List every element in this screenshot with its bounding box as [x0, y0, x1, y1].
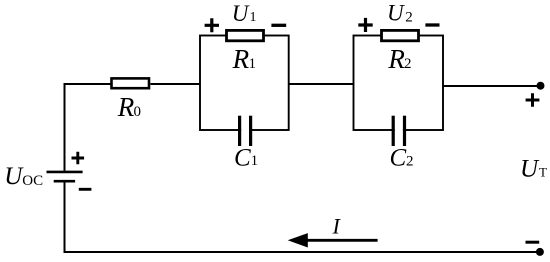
node: positive output terminal dot [537, 82, 545, 90]
node: RC1 parallel loop box [200, 36, 289, 131]
wire: R0 to RC1 network [151, 83, 201, 85]
svg-text:1: 1 [249, 56, 257, 72]
node: negative output terminal dot [536, 248, 544, 256]
battery cell UOC negative plate [54, 180, 75, 183]
svg-text:OC: OC [22, 173, 43, 189]
svg-text:U: U [232, 1, 250, 26]
svg-text:1: 1 [251, 153, 259, 169]
svg-text:R: R [387, 44, 405, 74]
node: RC2 parallel loop box [354, 36, 444, 131]
plus sign of U2 [358, 18, 372, 32]
current arrow I [288, 233, 378, 247]
plus sign of output [526, 93, 540, 107]
wire: left vertical from top rail to battery [64, 83, 66, 171]
minus sign of U2 [425, 23, 439, 26]
capacitor C2 [393, 116, 404, 146]
wire: top-left horizontal rail to R0 [64, 83, 112, 85]
resistor R0 [112, 78, 150, 88]
battery cell UOC positive plate [47, 171, 83, 174]
svg-text:U: U [520, 156, 540, 183]
wire: RC2 to positive output terminal [443, 85, 540, 87]
wire: battery to bottom rail [64, 183, 66, 254]
svg-text:T: T [539, 165, 547, 180]
resistor R2 [382, 30, 419, 40]
svg-text:0: 0 [134, 104, 142, 120]
resistor R1 [227, 30, 264, 40]
svg-text:1: 1 [250, 10, 257, 25]
plus sign of battery [72, 152, 85, 164]
svg-text:C: C [390, 145, 407, 172]
svg-text:R: R [232, 44, 250, 74]
svg-text:2: 2 [404, 56, 412, 72]
plus sign of U1 [205, 18, 219, 32]
wire: bottom rail [64, 251, 540, 253]
svg-text:R: R [117, 92, 135, 122]
wire: RC1 to RC2 [289, 83, 354, 85]
minus sign of output [526, 241, 540, 244]
svg-text:C: C [234, 145, 251, 172]
minus sign of U1 [271, 24, 286, 27]
svg-text:2: 2 [406, 153, 414, 169]
svg-text:U: U [4, 163, 24, 190]
svg-text:U: U [387, 1, 405, 26]
minus sign of battery [79, 188, 92, 191]
svg-text:2: 2 [405, 10, 413, 26]
capacitor C1 [240, 116, 251, 146]
